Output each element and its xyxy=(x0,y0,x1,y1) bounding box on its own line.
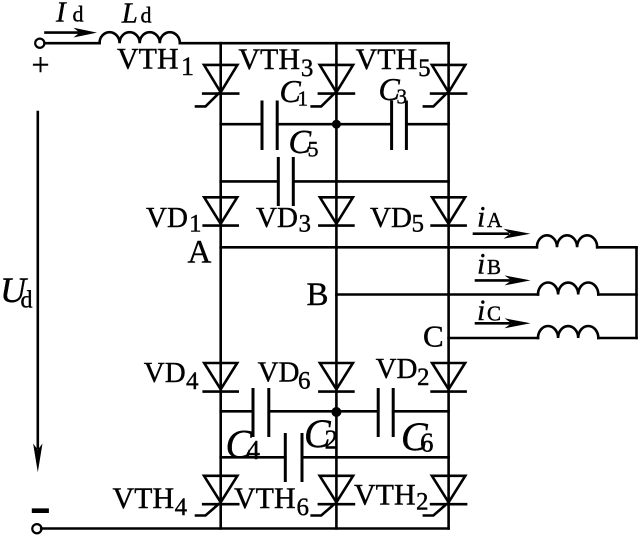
diode VD5 xyxy=(432,197,466,225)
svg-text:VD: VD xyxy=(258,357,300,389)
inductor Ld xyxy=(100,32,180,43)
wire phase A to bus xyxy=(597,246,636,249)
label C4 xyxy=(226,422,261,467)
svg-text:d: d xyxy=(73,2,84,27)
svg-text:2: 2 xyxy=(325,425,339,455)
svg-text:VD: VD xyxy=(144,357,186,389)
wire top rail xyxy=(180,42,449,45)
wire C2 line xyxy=(221,456,449,459)
label VTH4 xyxy=(113,482,188,521)
svg-text:5: 5 xyxy=(308,137,319,162)
inductor phase A xyxy=(537,235,597,247)
svg-text:VTH: VTH xyxy=(113,482,175,515)
diode VD2 xyxy=(432,363,466,392)
label C5 xyxy=(289,124,319,162)
inductor phase C xyxy=(538,326,598,338)
svg-text:VTH: VTH xyxy=(117,43,179,76)
svg-text:A: A xyxy=(487,208,503,232)
svg-text:I: I xyxy=(55,0,67,28)
svg-text:2: 2 xyxy=(416,489,429,516)
svg-text:B: B xyxy=(487,255,501,279)
thyristor VTH3 xyxy=(312,65,354,107)
capacitor C6 xyxy=(378,390,393,436)
label minus xyxy=(32,508,49,513)
wire phase C to bus xyxy=(598,337,636,340)
svg-text:d: d xyxy=(141,3,152,28)
svg-text:i: i xyxy=(477,201,485,234)
svg-text:4: 4 xyxy=(247,435,261,465)
svg-text:4: 4 xyxy=(186,368,199,395)
svg-text:VD: VD xyxy=(146,202,188,234)
svg-text:3: 3 xyxy=(299,211,312,238)
wire phase C xyxy=(449,337,538,340)
wire C4 C6 line xyxy=(221,410,449,413)
diode VD6 xyxy=(319,363,353,392)
svg-text:C: C xyxy=(487,302,501,326)
label VD6 xyxy=(258,357,311,395)
thyristor VTH2 xyxy=(424,476,466,516)
diode VD3 xyxy=(319,197,353,225)
thyristor VTH5 xyxy=(424,65,466,107)
svg-text:6: 6 xyxy=(298,368,311,395)
capacitor C2 xyxy=(285,435,302,481)
svg-text:6: 6 xyxy=(420,428,434,458)
wire leg3 xyxy=(447,43,450,528)
label VD3 xyxy=(256,202,311,238)
svg-text:3: 3 xyxy=(397,85,408,109)
label VD4 xyxy=(144,357,199,395)
label VTH6 xyxy=(234,482,309,521)
thyristor VTH4 xyxy=(196,476,238,516)
svg-text:1: 1 xyxy=(298,87,309,111)
label Id xyxy=(55,0,84,28)
arrow iC xyxy=(476,318,531,328)
svg-text:6: 6 xyxy=(297,494,310,521)
arrow iA xyxy=(474,229,531,239)
wire phase B xyxy=(336,293,538,296)
svg-text:3: 3 xyxy=(301,55,314,82)
arrow iB xyxy=(476,275,531,285)
svg-text:4: 4 xyxy=(175,494,188,521)
svg-text:VTH: VTH xyxy=(238,43,300,76)
svg-text:VD: VD xyxy=(256,202,298,234)
svg-text:d: d xyxy=(21,288,33,314)
wire leg2 xyxy=(335,43,338,528)
label VD2 xyxy=(376,353,430,391)
svg-text:B: B xyxy=(307,277,329,313)
label Ld xyxy=(121,0,152,29)
capacitor C5 xyxy=(278,159,293,205)
capacitor C4 xyxy=(253,390,269,436)
label C1 xyxy=(280,73,309,111)
diode VD1 xyxy=(204,197,238,225)
svg-text:1: 1 xyxy=(181,52,194,81)
label VD1 xyxy=(146,202,202,238)
wire C1 C3 line xyxy=(221,123,449,126)
capacitor C1 xyxy=(262,102,277,149)
label iB xyxy=(477,248,501,281)
label iA xyxy=(477,201,503,234)
arrow Ud xyxy=(33,112,42,472)
label C6 xyxy=(401,414,434,459)
node dot bottom xyxy=(331,407,341,417)
thyristor VTH6 xyxy=(312,476,354,516)
label VTH5 xyxy=(356,43,431,82)
svg-text:5: 5 xyxy=(412,211,425,238)
svg-text:i: i xyxy=(477,248,485,281)
label C3 xyxy=(379,71,408,109)
label VD5 xyxy=(370,202,424,238)
wire phase A xyxy=(221,246,537,249)
wire leg1 xyxy=(219,43,222,528)
svg-text:2: 2 xyxy=(417,364,430,391)
inductor phase B xyxy=(538,283,598,295)
svg-text:5: 5 xyxy=(418,55,431,82)
svg-text:+: + xyxy=(32,47,50,83)
label iC xyxy=(477,294,501,327)
label VTH2 xyxy=(354,479,429,516)
svg-text:A: A xyxy=(188,234,212,270)
diode VD4 xyxy=(204,363,238,392)
arrow Id xyxy=(46,28,98,38)
label VTH3 xyxy=(238,43,313,82)
label C2 xyxy=(304,411,338,456)
wire right bus xyxy=(635,247,638,338)
thyristor VTH1 xyxy=(196,65,238,107)
svg-text:VD: VD xyxy=(370,202,412,234)
wire top rail left xyxy=(45,42,100,45)
terminal plus xyxy=(35,39,44,48)
label Ud xyxy=(0,270,33,314)
svg-text:VTH: VTH xyxy=(234,482,296,515)
wire C5 line xyxy=(221,180,449,183)
svg-text:C: C xyxy=(423,319,444,354)
capacitor C3 xyxy=(392,102,407,149)
wire bottom rail xyxy=(41,527,448,530)
node dot top xyxy=(332,120,341,129)
svg-text:i: i xyxy=(477,294,485,327)
label VTH1 xyxy=(117,43,194,81)
svg-text:L: L xyxy=(121,0,138,29)
svg-text:VTH: VTH xyxy=(354,479,416,512)
svg-text:1: 1 xyxy=(189,210,202,237)
terminal minus xyxy=(32,524,41,533)
wire phase B to bus xyxy=(598,293,636,296)
svg-text:VD: VD xyxy=(376,353,418,385)
